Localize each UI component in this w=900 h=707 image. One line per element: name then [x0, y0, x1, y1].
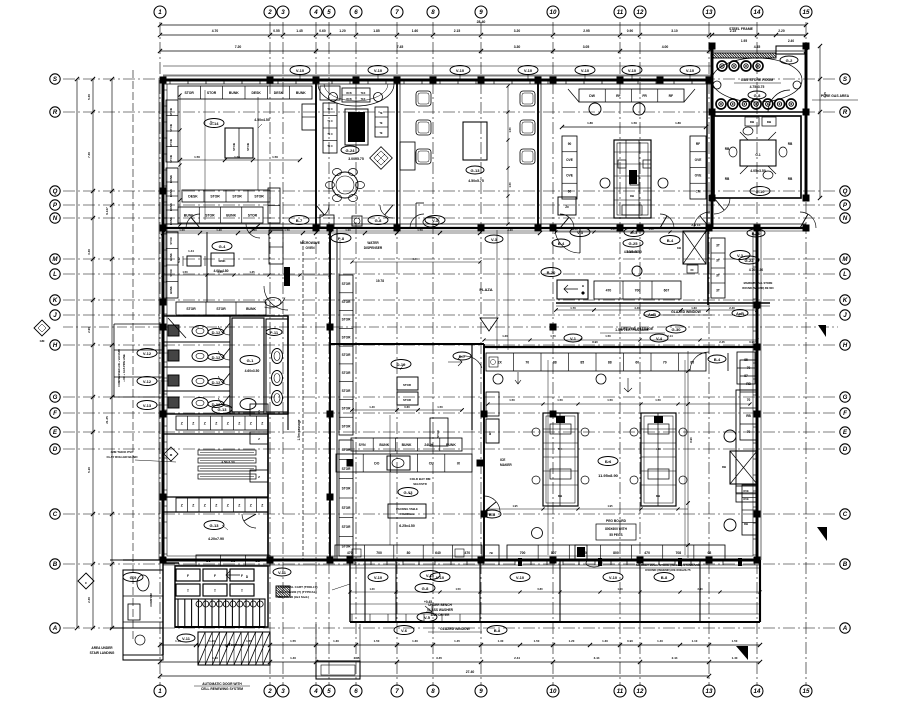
svg-text:BUNK: BUNK [169, 175, 173, 183]
svg-text:2.40: 2.40 [729, 306, 735, 310]
svg-text:4: 4 [313, 9, 318, 16]
gas room circles row 1 [717, 61, 727, 71]
svg-text:STOR: STOR [342, 424, 351, 428]
plaza dim verticals [496, 230, 498, 350]
svg-text:Q: Q [843, 188, 848, 195]
svg-text:4.05x3.50: 4.05x3.50 [750, 169, 766, 173]
svg-text:21.35: 21.35 [105, 416, 109, 424]
svg-text:C: C [843, 511, 848, 518]
svg-text:STOR: STOR [403, 398, 412, 402]
room D-19 stor cells [397, 377, 418, 390]
bottom band inner lines [350, 567, 760, 569]
svg-text:AUTOMATIC DOOR WITH: AUTOMATIC DOOR WITH [202, 682, 242, 686]
svg-text:RB: RB [788, 142, 793, 146]
svg-text:800: 800 [613, 551, 619, 555]
svg-text:4.40: 4.40 [634, 306, 640, 310]
svg-text:B: B [843, 561, 848, 568]
svg-text:G-8: G-8 [375, 218, 382, 223]
svg-text:2.15: 2.15 [454, 29, 461, 33]
svg-text:L: L [843, 271, 847, 278]
dining door arc [410, 214, 424, 228]
room D-19 right wall [471, 344, 473, 430]
svg-text:11: 11 [617, 688, 624, 695]
shower corner [168, 318, 186, 338]
svg-text:2: 2 [267, 9, 272, 16]
svg-text:1.30: 1.30 [412, 639, 418, 643]
svg-text:COMP RM: COMP RM [149, 593, 153, 607]
bottom band left wall [349, 560, 351, 622]
svg-text:GLAZED WINDOW: GLAZED WINDOW [440, 627, 471, 631]
svg-text:RB: RB [630, 194, 634, 198]
bottom center tags [420, 571, 440, 580]
svg-text:3.14: 3.14 [667, 334, 673, 338]
svg-text:FR: FR [642, 94, 647, 98]
column bubbles top [154, 6, 166, 18]
svg-text:0.90: 0.90 [627, 639, 633, 643]
svg-text:OVE: OVE [743, 489, 749, 493]
svg-text:BUNK: BUNK [169, 189, 173, 197]
svg-text:8: 8 [431, 688, 435, 695]
svg-text:STOR: STOR [169, 155, 173, 163]
svg-text:1.50: 1.50 [272, 155, 278, 159]
svg-text:RB: RB [746, 382, 751, 386]
mid passage centerline [63, 326, 838, 328]
wash room right [232, 318, 264, 412]
gas room circles row 2 [716, 99, 726, 109]
svg-text:1.80: 1.80 [587, 121, 593, 125]
svg-text:1.5m passage: 1.5m passage [297, 419, 301, 440]
svg-text:2.45: 2.45 [719, 340, 725, 344]
laundry right wall [707, 228, 709, 305]
svg-text:RF: RF [616, 94, 621, 98]
big room arrow [515, 372, 521, 384]
svg-text:STOR: STOR [246, 143, 250, 151]
svg-text:1.10: 1.10 [692, 639, 698, 643]
bottom band bottom wall [350, 621, 760, 623]
svg-text:ROUND (WHEND) RE 600x23.75: ROUND (WHEND) RE 600x23.75 [645, 568, 691, 572]
svg-text:1.40: 1.40 [572, 227, 578, 231]
laundry door arc [555, 228, 580, 253]
svg-text:1.00: 1.00 [234, 155, 240, 159]
svg-text:1.40: 1.40 [290, 656, 296, 660]
svg-text:MAKER: MAKER [500, 463, 512, 467]
svg-text:1.30: 1.30 [602, 639, 608, 643]
svg-text:STOR: STOR [207, 91, 217, 95]
svg-text:3: 3 [281, 688, 285, 695]
toilet leader lines [157, 352, 168, 354]
svg-text:1.40: 1.40 [657, 639, 663, 643]
svg-text:10: 10 [550, 9, 557, 16]
left wing wall stubs [114, 323, 163, 325]
svg-text:Z: Z [192, 503, 194, 507]
room divider x397 lounge-dining [396, 80, 398, 228]
svg-text:PURE GAS AREA: PURE GAS AREA [821, 94, 850, 98]
svg-text:3T: 3T [716, 244, 720, 248]
svg-text:G-22: G-22 [745, 258, 755, 263]
meeting room box [714, 116, 801, 198]
svg-text:470: 470 [464, 551, 470, 555]
svg-text:RB: RB [744, 522, 748, 526]
kitchen dim line [562, 126, 706, 128]
svg-text:800X600 WITH: 800X600 WITH [605, 527, 627, 531]
svg-text:GLASS WASHER: GLASS WASHER [427, 608, 454, 612]
svg-text:G: G [843, 394, 848, 401]
stor cell right of D19 [430, 418, 448, 446]
svg-text:RF: RF [669, 94, 674, 98]
svg-text:3.00x5.75: 3.00x5.75 [348, 157, 364, 161]
room A vert dim [257, 97, 259, 190]
svg-text:AaB: AaB [648, 312, 656, 317]
svg-text:BUNK: BUNK [402, 443, 412, 447]
svg-text:4.60x3.50: 4.60x3.50 [245, 369, 260, 373]
room D-19 dim line [352, 409, 462, 411]
corridor pier black [284, 267, 290, 286]
corridor right cells upper [269, 230, 283, 264]
svg-text:V-11: V-11 [278, 570, 287, 575]
svg-text:3T: 3T [716, 274, 720, 278]
svg-text:STOR: STOR [342, 300, 351, 304]
svg-text:6: 6 [354, 9, 358, 16]
svg-text:UNDER BENCH: UNDER BENCH [428, 603, 452, 607]
svg-text:B-8: B-8 [494, 628, 501, 633]
svg-text:STOR: STOR [254, 194, 264, 198]
svg-text:V-10: V-10 [436, 575, 445, 580]
svg-text:1.44: 1.44 [188, 249, 194, 253]
svg-text:7.30: 7.30 [87, 152, 91, 158]
toilet stor row [176, 302, 266, 315]
svg-text:G-30: G-30 [672, 327, 682, 332]
svg-text:TEX: TEX [361, 98, 366, 101]
svg-text:3T: 3T [716, 259, 720, 263]
svg-text:B-20: B-20 [547, 270, 556, 275]
AaB tags [644, 311, 660, 318]
svg-text:V-10: V-10 [374, 68, 383, 73]
cabinet row y454 [336, 454, 472, 472]
bottom-right big room left wall [483, 347, 485, 560]
room A lower cabinet rows [182, 190, 270, 202]
svg-text:D-12: D-12 [212, 380, 221, 385]
room D-19 door [453, 352, 471, 360]
svg-text:90: 90 [568, 142, 572, 146]
lab bench stripes [198, 450, 256, 455]
gas room left wall [711, 46, 714, 228]
svg-text:G-10: G-10 [756, 189, 766, 194]
svg-text:7: 7 [395, 9, 399, 16]
svg-text:1.63: 1.63 [691, 306, 697, 310]
toilet stall tags [208, 329, 224, 336]
lab cabinet row bottom Z [176, 498, 268, 512]
big room label [598, 457, 618, 466]
svg-text:F: F [214, 574, 216, 578]
lab divider wall [163, 433, 268, 435]
main corridor wall [163, 227, 806, 229]
svg-text:28.40: 28.40 [477, 20, 486, 24]
svg-text:KB: KB [677, 246, 681, 250]
svg-text:BUNK: BUNK [169, 286, 173, 294]
svg-text:9: 9 [479, 688, 483, 695]
svg-text:OVE: OVE [695, 174, 702, 178]
svg-text:CM: CM [696, 189, 701, 193]
basin strip [266, 319, 288, 412]
svg-text:BUNK: BUNK [229, 91, 239, 95]
stair side walls left [123, 570, 163, 660]
svg-text:G-8: G-8 [422, 586, 429, 591]
big room door top [690, 352, 709, 371]
svg-text:0.80: 0.80 [537, 587, 543, 591]
svg-text:STOR: STOR [169, 108, 173, 116]
svg-text:7B: 7B [489, 551, 493, 555]
big room right circle [724, 430, 736, 442]
big room table 1 circles [532, 428, 540, 436]
svg-text:88: 88 [608, 360, 612, 364]
svg-text:1.40: 1.40 [216, 228, 222, 232]
plaza triangle [480, 318, 498, 331]
svg-text:STOR: STOR [232, 194, 242, 198]
gas room right wall [805, 46, 808, 198]
svg-text:F: F [53, 410, 57, 417]
svg-text:3.40: 3.40 [87, 249, 91, 255]
room A tag G-14 [204, 119, 224, 128]
svg-text:P-11: P-11 [270, 330, 279, 335]
svg-text:4.50x4.50: 4.50x4.50 [254, 118, 270, 122]
svg-text:RCB: RCB [346, 98, 351, 101]
room A table 1.50x1.50 [225, 128, 253, 158]
svg-text:STOR: STOR [342, 448, 351, 452]
svg-text:STOR: STOR [342, 467, 351, 471]
svg-text:BUNK: BUNK [446, 443, 456, 447]
svg-text:8.90: 8.90 [689, 437, 693, 443]
meeting door [750, 187, 770, 196]
gas room hatched top [712, 53, 776, 58]
svg-text:V-3: V-3 [432, 218, 439, 223]
gas room tag [780, 56, 798, 64]
svg-text:TE: TE [379, 122, 382, 125]
left wall cabinets below corridor [166, 232, 178, 298]
svg-text:1.40: 1.40 [648, 227, 654, 231]
svg-text:1.40: 1.40 [732, 656, 738, 660]
bottom band window tags [368, 573, 388, 582]
svg-text:STOR: STOR [184, 91, 194, 95]
packing tag [398, 488, 418, 497]
svg-text:Z: Z [227, 503, 229, 507]
svg-text:MARKET WALL STORE: MARKET WALL STORE [744, 281, 773, 285]
svg-text:+ N2 + GAS PIPE LINE: + N2 + GAS PIPE LINE [122, 354, 126, 382]
svg-text:ROUND (WHEND) RE 600: ROUND (WHEND) RE 600 [742, 286, 774, 290]
svg-text:15: 15 [803, 9, 810, 16]
laundry 60 cell [687, 265, 698, 273]
stair V-11 tag [177, 634, 195, 642]
wash entry arc [264, 286, 288, 310]
svg-text:V-10: V-10 [609, 575, 618, 580]
big room top cabinet row [486, 353, 706, 371]
svg-text:V-10: V-10 [516, 575, 525, 580]
svg-text:BUNK: BUNK [226, 213, 236, 217]
basin strip wall [287, 316, 289, 414]
svg-text:K: K [843, 297, 848, 304]
room divider x207 [206, 232, 208, 302]
packing room bottom counter [335, 545, 482, 560]
svg-text:OVEN: OVEN [305, 246, 315, 250]
kitchen door arc [660, 214, 674, 228]
door arcs along corridor [186, 214, 200, 228]
svg-text:B-4: B-4 [714, 357, 721, 362]
svg-text:1.60: 1.60 [412, 29, 419, 33]
corridor dim line [163, 232, 540, 234]
stair F boxes row2 [176, 584, 200, 596]
svg-text:9.147: 9.147 [105, 207, 109, 215]
toilet block outline [163, 316, 288, 414]
outer wall top [163, 79, 712, 82]
dining chairs left wall [416, 91, 431, 106]
svg-text:32M THICK PVC: 32M THICK PVC [111, 450, 135, 454]
svg-text:470: 470 [644, 551, 650, 555]
svg-text:V-12: V-12 [143, 351, 152, 356]
bottom dimension line 1 [160, 644, 760, 646]
svg-text:2.45: 2.45 [354, 656, 360, 660]
stair diagonal hatch run [198, 632, 270, 665]
svg-text:0.90: 0.90 [749, 340, 755, 344]
svg-text:1.20: 1.20 [369, 587, 375, 591]
svg-text:F: F [241, 574, 243, 578]
svg-text:Z: Z [261, 503, 263, 507]
big room right column cells [740, 360, 757, 440]
lounge round table [332, 172, 358, 198]
svg-text:1.95: 1.95 [512, 504, 518, 508]
meeting room table [740, 140, 776, 166]
svg-text:4.50x5.75: 4.50x5.75 [468, 179, 484, 183]
svg-text:24UH: 24UH [424, 443, 433, 447]
svg-text:1.50: 1.50 [455, 587, 461, 591]
V-10 window tags top [290, 66, 310, 75]
corridor cabinet col upper [339, 275, 353, 435]
corridor wall x303 partial [302, 240, 304, 560]
svg-text:V-6: V-6 [401, 628, 408, 633]
lounge tilted piano [370, 147, 393, 170]
svg-text:4.35: 4.35 [754, 45, 761, 49]
bottom band right wall [759, 560, 761, 622]
window mullions top wall [169, 80, 171, 84]
svg-text:70: 70 [747, 430, 751, 434]
svg-text:0.60: 0.60 [319, 29, 326, 33]
kitchen right wall [706, 80, 708, 228]
diamond marker lab [164, 447, 178, 461]
svg-text:10: 10 [550, 688, 557, 695]
svg-text:2X: 2X [498, 360, 503, 364]
svg-text:STOR: STOR [342, 506, 351, 510]
svg-text:8.90: 8.90 [592, 340, 598, 344]
room G-4 tag [212, 242, 232, 251]
svg-text:1.20: 1.20 [502, 334, 508, 338]
svg-text:G-4: G-4 [219, 244, 226, 249]
toilet door arcs [218, 326, 230, 335]
svg-text:LIFT VER. PASSAGE: LIFT VER. PASSAGE [621, 327, 654, 331]
kitchen island [614, 140, 651, 218]
svg-text:J: J [53, 312, 57, 319]
svg-text:6.25x4.50: 6.25x4.50 [399, 524, 415, 528]
svg-text:V-13: V-13 [143, 403, 152, 408]
svg-text:470: 470 [606, 288, 612, 292]
svg-text:GM: GM [40, 339, 45, 343]
outer wall left [162, 80, 165, 560]
right room tags [747, 229, 765, 237]
svg-text:5.10: 5.10 [87, 467, 91, 473]
svg-text:7.45: 7.45 [397, 45, 404, 49]
svg-text:STOR: STOR [342, 525, 351, 529]
svg-text:M: M [52, 256, 58, 263]
svg-text:1.50: 1.50 [655, 398, 661, 402]
svg-text:B-8: B-8 [489, 512, 496, 517]
svg-text:3.30: 3.30 [514, 45, 521, 49]
svg-text:60: 60 [635, 360, 639, 364]
svg-text:STAIR LANDING: STAIR LANDING [90, 651, 115, 655]
svg-text:R: R [843, 109, 848, 116]
svg-text:STOR: STOR [248, 213, 258, 217]
big room bottom circles [532, 528, 543, 539]
lounge right seat column [375, 107, 388, 137]
svg-text:Z: Z [204, 421, 206, 425]
svg-text:BUNK: BUNK [169, 253, 173, 261]
svg-text:0.60: 0.60 [404, 405, 410, 409]
svg-text:2.30: 2.30 [87, 597, 91, 603]
svg-text:88: 88 [553, 360, 557, 364]
svg-text:2.40: 2.40 [788, 39, 794, 43]
svg-text:1.50: 1.50 [284, 228, 290, 232]
lab corner cells right [250, 404, 268, 416]
big room door arc [484, 496, 500, 512]
bottom dimension line 3 [160, 675, 709, 677]
svg-text:640: 640 [435, 551, 441, 555]
svg-text:STOR: STOR [169, 124, 173, 132]
laundry bottom wall [556, 302, 770, 304]
laundry sink circle [632, 266, 642, 276]
dining table [463, 122, 487, 160]
kitchen sinks [589, 103, 601, 115]
svg-text:G-1: G-1 [755, 153, 761, 157]
svg-text:SYN: SYN [359, 443, 367, 447]
top right cells col [737, 352, 755, 384]
svg-text:1.50: 1.50 [194, 155, 200, 159]
left room dims [179, 95, 181, 225]
room above stairs bottom cells [196, 555, 270, 566]
svg-text:1.95: 1.95 [607, 504, 613, 508]
svg-text:2.40: 2.40 [697, 587, 703, 591]
svg-text:Q: Q [53, 188, 58, 195]
svg-text:A: A [52, 625, 58, 632]
svg-text:1.50: 1.50 [732, 639, 738, 643]
svg-text:BUNK: BUNK [379, 443, 389, 447]
svg-text:D-12: D-12 [212, 330, 221, 335]
hatched box right of stairs [276, 586, 290, 597]
svg-text:7.20: 7.20 [235, 45, 242, 49]
laundry tags [485, 235, 503, 243]
svg-text:BUNK: BUNK [296, 91, 306, 95]
svg-text:4.40: 4.40 [412, 257, 418, 261]
toilet stall dividers [163, 341, 230, 343]
laundry X box [683, 231, 706, 264]
stair block outline [175, 566, 268, 627]
svg-text:GLAZED WINDOW: GLAZED WINDOW [671, 310, 702, 314]
svg-text:0.55: 0.55 [273, 29, 280, 33]
svg-text:D: D [843, 446, 848, 453]
svg-text:T: T [214, 589, 216, 593]
svg-text:MICROWAVE: MICROWAVE [300, 241, 320, 245]
svg-text:STOR: STOR [169, 139, 173, 147]
svg-text:Z: Z [250, 503, 252, 507]
corridor wall x330 [329, 228, 331, 560]
svg-text:ICE: ICE [500, 458, 505, 462]
svg-text:G: G [53, 394, 58, 401]
svg-text:G-9: G-9 [130, 575, 137, 580]
